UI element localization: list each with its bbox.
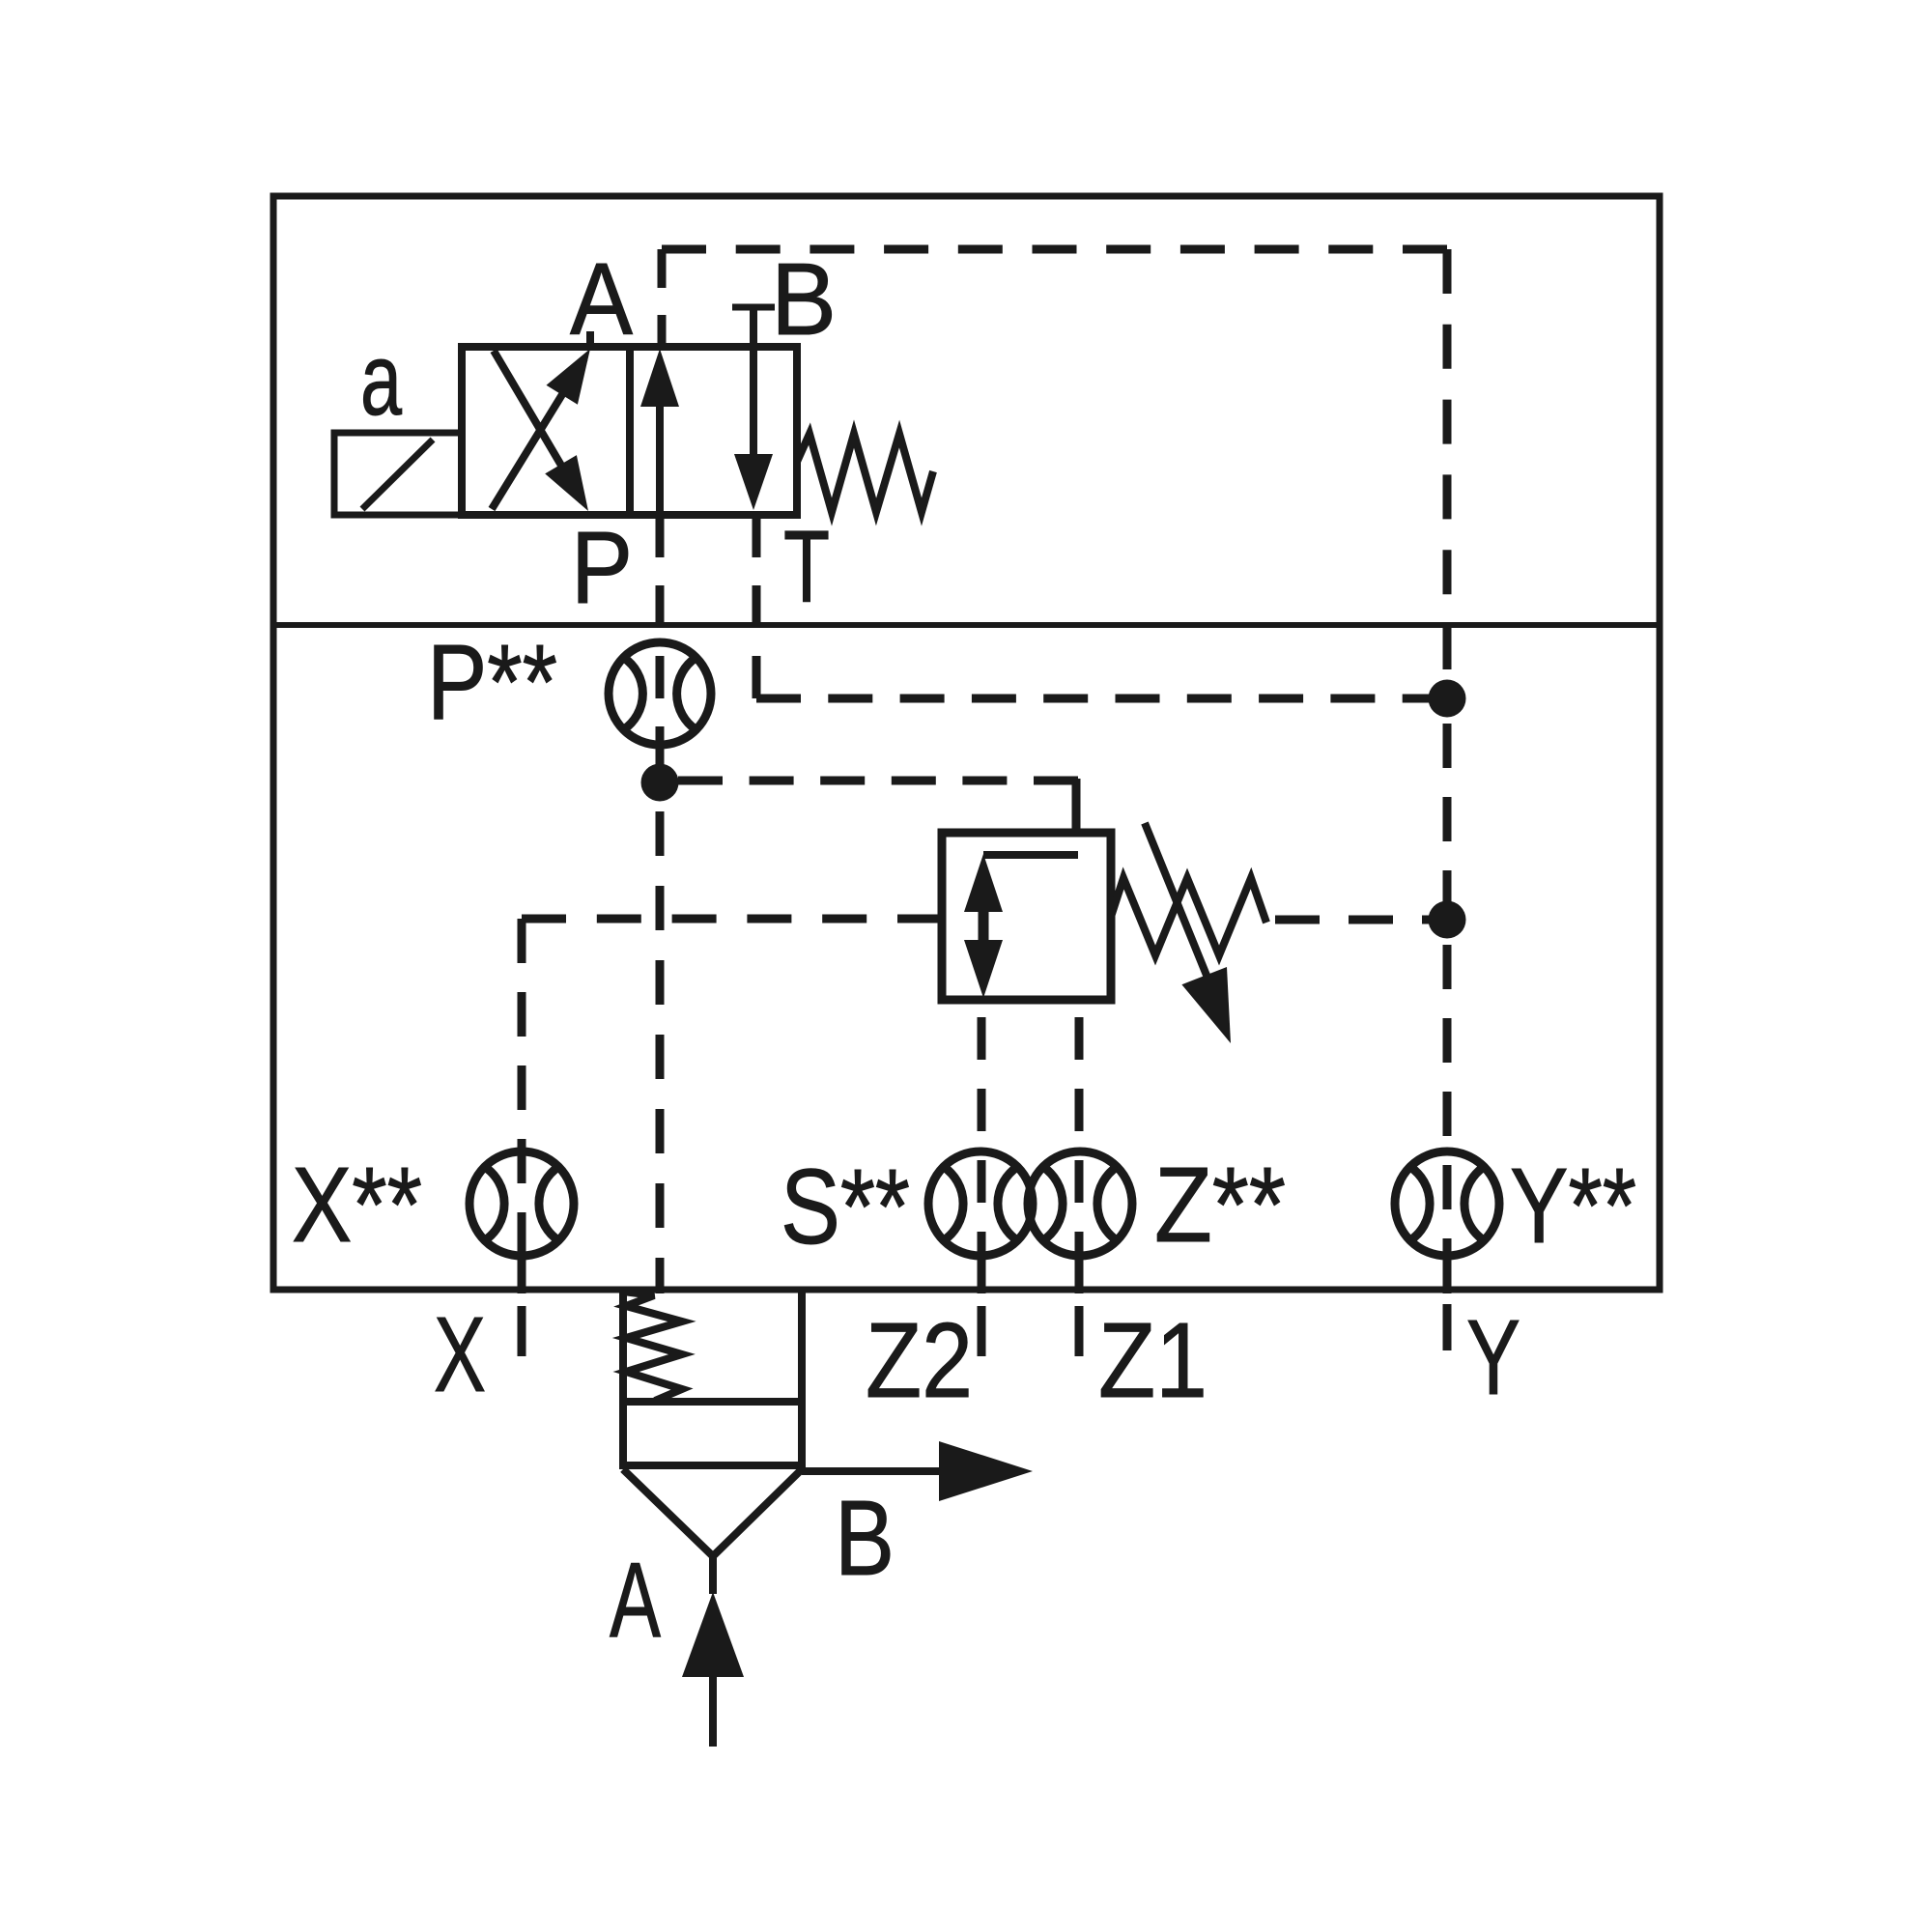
solenoid a diagonal (362, 440, 433, 509)
relief valve RV1 body (942, 833, 1111, 1000)
svg-text:A: A (610, 1541, 661, 1660)
Z line solid to border (1075, 1254, 1084, 1293)
svg-text:Y**: Y** (1510, 1147, 1636, 1265)
X line solid to border (518, 1254, 526, 1293)
X pilot dashed horizontal (522, 915, 942, 923)
cartridge piston line (623, 1398, 802, 1406)
Y line solid to border (1443, 1254, 1452, 1293)
relief valve poppet up arrowhead (964, 854, 1003, 912)
valve down-flow line (750, 347, 757, 458)
svg-text:Y: Y (1466, 1298, 1520, 1417)
Z** port symbol (1028, 1151, 1132, 1256)
junction dot P (641, 764, 679, 802)
junction dot T/Y (1429, 680, 1466, 718)
cartridge poppet V (623, 1469, 802, 1556)
svg-text:a: a (360, 323, 402, 437)
port B tee bar (732, 304, 775, 311)
pilot branch dashed to relief valve top (678, 777, 1078, 785)
port A inlet stub from poppet (709, 1556, 717, 1594)
port B output line (802, 1467, 952, 1475)
P pilot dashed vertical to cartridge (656, 782, 665, 1293)
relief bottom port Z2 dashed (978, 1000, 986, 1254)
svg-text:B: B (835, 1479, 895, 1598)
port B output arrowhead (939, 1441, 1033, 1501)
port A inlet arrowhead (682, 1592, 744, 1677)
Y** port symbol (1395, 1151, 1499, 1256)
relief valve poppet shaft (979, 908, 989, 945)
valve return spring (797, 434, 933, 512)
Y line dashed between dots (1443, 698, 1452, 920)
crossed path arrowhead to A (547, 349, 591, 405)
svg-text:X**: X** (292, 1146, 422, 1264)
pilot valve U1 body (462, 347, 797, 515)
Z1 stub below border (1075, 1306, 1084, 1356)
svg-text:A: A (570, 242, 633, 356)
crossed path P-to-A line (492, 358, 584, 509)
svg-text:T: T (783, 510, 830, 624)
S** port symbol (928, 1151, 1033, 1256)
S line solid to border (978, 1254, 986, 1293)
P port dashed vertical (656, 515, 665, 741)
svg-text:B: B (771, 242, 837, 356)
relief valve adjustment arrowhead (1181, 967, 1231, 1043)
T port dashed vertical (753, 515, 761, 698)
svg-text:S**: S** (781, 1148, 910, 1266)
svg-text:Z1: Z1 (1098, 1301, 1207, 1420)
svg-text:Z**: Z** (1154, 1146, 1286, 1264)
relief bottom port Z1 dashed (1075, 1000, 1084, 1254)
valve down-flow arrowhead (734, 454, 773, 510)
valve up-flow arrowhead (640, 349, 679, 407)
manifold internal divider line (273, 622, 1660, 628)
svg-text:X: X (434, 1295, 486, 1414)
cartridge seat line (623, 1462, 802, 1469)
svg-text:Z2: Z2 (866, 1301, 973, 1420)
svg-text:P: P (571, 511, 633, 625)
X** port symbol (469, 1151, 574, 1256)
port A stub (586, 331, 594, 347)
X pilot dashed vertical (518, 919, 526, 1254)
cartridge valve CV1 right edge (798, 1290, 806, 1469)
svg-text:P**: P** (427, 623, 557, 742)
P junction stub (656, 741, 665, 768)
cartridge spring (623, 1292, 682, 1401)
Z2 stub below border (978, 1306, 986, 1356)
P** port symbol (609, 642, 711, 745)
relief valve poppet down arrowhead (964, 940, 1003, 998)
relief valve adjustable spring (1111, 878, 1266, 955)
relief valve internal pilot line (983, 851, 1078, 859)
crossed path arrowhead down (545, 455, 588, 511)
port A inlet line (709, 1675, 717, 1747)
pilot supply dashed drop to valve (658, 249, 667, 347)
manifold block outer border (273, 196, 1660, 1290)
crossed path A-to-T line (494, 351, 582, 501)
relief valve adjustment arrow shaft (1145, 823, 1207, 978)
port B stub (750, 307, 757, 347)
relief valve top port solid (1072, 779, 1081, 833)
cartridge valve CV1 left edge (619, 1290, 627, 1469)
Y line dashed to port circle (1443, 920, 1452, 1254)
X stub below border (518, 1306, 526, 1356)
T drain dashed horizontal to Y line (756, 695, 1447, 703)
solenoid a box (334, 433, 462, 515)
pilot supply dashed line top horizontal (662, 245, 1447, 254)
Y stub below border (1443, 1304, 1452, 1350)
pilot valve U1 center divider (626, 347, 634, 515)
valve up-flow line (656, 402, 664, 515)
pilot line right vertical upper (1443, 249, 1452, 698)
relief spring dashed link to Y line (1275, 916, 1429, 924)
junction dot relief/Y (1429, 901, 1466, 939)
